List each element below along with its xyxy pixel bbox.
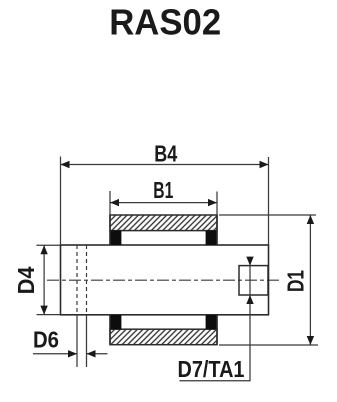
center line (47, 279, 281, 281)
dimension B1 left arrow (110, 199, 119, 206)
seal bottom right (206, 315, 218, 329)
svg-text:B4: B4 (154, 140, 177, 166)
dimension D4 lines (37, 245, 61, 314)
outer ring, top cross-section hatch (110, 215, 217, 231)
svg-text:B1: B1 (153, 177, 173, 203)
dimension B4 lines (61, 157, 269, 246)
hidden lubrication hole, left dashed line (76, 245, 78, 315)
svg-text:D6: D6 (33, 327, 59, 353)
outer ring right side face (216, 215, 218, 345)
svg-text:D4: D4 (13, 266, 39, 294)
dimension D7/TA1 up arrow (246, 295, 253, 304)
seal top right (206, 231, 218, 245)
dimension B1 right arrow (208, 199, 217, 206)
seal bottom left (109, 315, 121, 329)
seal top left (109, 231, 121, 245)
dimension D6 left arrow (68, 350, 77, 357)
dimension D4 bottom arrow (40, 306, 47, 315)
dimension D4 top arrow (40, 245, 47, 254)
dimension D1 top arrow (307, 215, 314, 224)
grease hole at right end face (239, 266, 268, 295)
svg-text:D7/TA1: D7/TA1 (178, 356, 245, 382)
dimension B4 left arrow (61, 161, 70, 168)
dimension B4 right arrow (260, 161, 269, 168)
dimension D7/TA1 leader lines (180, 257, 251, 381)
hidden lubrication hole, right dashed line (86, 245, 88, 315)
dimension D6 right arrow (87, 350, 96, 357)
dimension D1 bottom arrow (307, 336, 314, 345)
dimension D6 lines (33, 315, 108, 367)
svg-text:D1: D1 (283, 270, 309, 292)
svg-text:RAS02: RAS02 (109, 2, 221, 43)
dimension D1 lines (219, 215, 318, 345)
dimension D7/TA1 down arrow (246, 257, 253, 266)
outer ring, bottom cross-section hatch (110, 329, 217, 345)
inner ring (stud) body (61, 245, 269, 315)
dimension B1 lines (110, 191, 217, 215)
outer ring left side face (109, 215, 111, 345)
